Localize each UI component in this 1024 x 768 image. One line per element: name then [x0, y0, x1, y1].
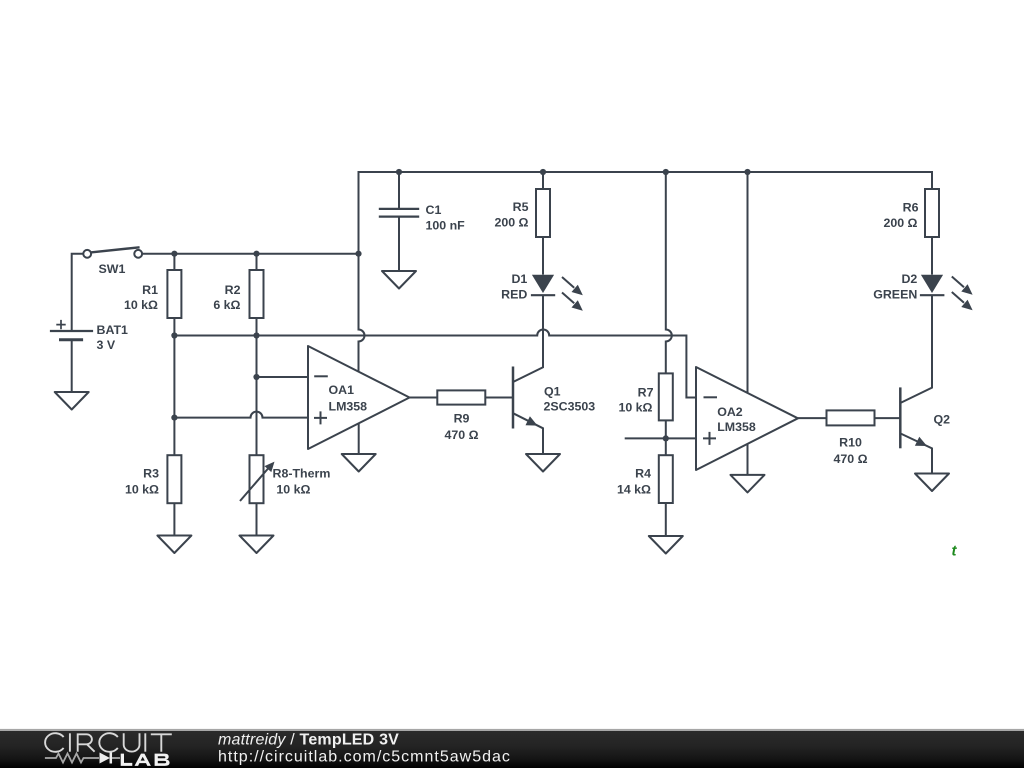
node t annotation (green) — [952, 543, 958, 560]
wire OA1 output to R9 — [410, 397, 438, 399]
wire OA1 inverting input from R2/R8 node — [257, 376, 309, 378]
wire R7 feed from top bus (hops over node-A wire) — [666, 172, 672, 373]
svg-text:R9: R9 — [454, 412, 470, 426]
node R7/R4 junction dot — [663, 435, 669, 441]
svg-text:200 Ω: 200 Ω — [883, 216, 917, 230]
svg-text:200 Ω: 200 Ω — [494, 216, 528, 230]
wire OA2 output to R10 — [798, 417, 827, 419]
ground (R4) — [649, 536, 683, 554]
svg-text:R8-Therm: R8-Therm — [273, 467, 331, 481]
svg-text:10 kΩ: 10 kΩ — [124, 298, 158, 312]
wire node A (R1/R3 tap) long horizontal to OA2 minus, hops over Q1 collector — [174, 330, 696, 398]
thermistor R8-Therm — [240, 455, 330, 535]
wire battery to switch — [72, 254, 84, 331]
wire VCC top bus with corners down to switch rail and to R6 — [359, 172, 933, 254]
ground (R3) — [157, 536, 191, 554]
resistor R10 — [827, 410, 875, 465]
resistor R9 — [437, 390, 485, 441]
svg-text:14 kΩ: 14 kΩ — [617, 482, 651, 496]
svg-text:R7: R7 — [638, 385, 654, 399]
footer bar top highlight — [0, 729, 1024, 731]
ground (Q1) — [526, 454, 560, 472]
op-amp OA2 LM358 — [696, 367, 798, 470]
ground (battery) — [55, 392, 89, 410]
svg-text:R4: R4 — [635, 466, 651, 480]
switch SW1 — [83, 247, 142, 275]
svg-text:470 Ω: 470 Ω — [833, 452, 867, 466]
wire OA1 non-inverting input (hops over R2 column) — [174, 412, 308, 418]
svg-text:100 nF: 100 nF — [426, 219, 466, 233]
resistor R5 — [494, 172, 550, 275]
svg-text:R5: R5 — [513, 200, 529, 214]
capacitor C1 — [379, 172, 465, 271]
wire OA1 V- pin to ground — [358, 423, 360, 454]
footer url — [218, 749, 511, 766]
resistor R1 — [124, 254, 181, 456]
svg-text:GREEN: GREEN — [873, 287, 917, 301]
CircuitLab logo CIRCUIT — [45, 733, 172, 752]
wire OA2 non-inverting input rail — [625, 437, 696, 439]
CircuitLab logo LAB — [121, 754, 170, 766]
node VCC junction dots on switch rail — [171, 251, 361, 257]
resistor R2 — [213, 254, 263, 456]
footer bar — [0, 731, 1024, 768]
svg-text:R1: R1 — [142, 283, 158, 297]
wire R9 to Q1 base — [485, 397, 513, 399]
svg-text:OA2: OA2 — [717, 405, 743, 419]
svg-text:BAT1: BAT1 — [97, 323, 129, 337]
svg-text:2SC3503: 2SC3503 — [544, 399, 596, 413]
wire OA2 V- pin to ground — [747, 444, 749, 475]
svg-text:10 kΩ: 10 kΩ — [125, 483, 159, 497]
svg-text:http://circuitlab.com/c5cmnt5a: http://circuitlab.com/c5cmnt5aw5dac — [218, 749, 511, 766]
ground (R8) — [240, 536, 274, 554]
svg-text:470 Ω: 470 Ω — [444, 428, 478, 442]
wire OA2 V+ pin from top bus — [747, 172, 749, 393]
ground (OA2) — [731, 475, 765, 493]
footer title mattreidy / TempLED 3V — [218, 731, 399, 748]
svg-text:6 kΩ: 6 kΩ — [213, 298, 240, 312]
node top bus junction dots — [396, 169, 751, 175]
node R2/R8 junction dot — [253, 374, 259, 380]
transistor Q2 — [900, 295, 950, 474]
resistor R7 — [618, 373, 672, 455]
svg-text:R10: R10 — [839, 436, 862, 450]
svg-text:D2: D2 — [901, 272, 917, 286]
svg-text:LM358: LM358 — [329, 399, 368, 413]
op-amp OA1 LM358 — [308, 346, 410, 449]
node junction dot on R1/R3 column — [171, 415, 177, 421]
wire switch to bus rail — [142, 253, 358, 255]
svg-text:mattreidy / TempLED 3V: mattreidy / TempLED 3V — [218, 731, 399, 748]
svg-text:Q1: Q1 — [544, 385, 561, 399]
svg-text:R6: R6 — [903, 201, 919, 215]
LED D2 GREEN — [873, 272, 972, 310]
wire R10 to Q2 base — [875, 417, 901, 419]
LED D1 RED — [501, 272, 583, 311]
ground (OA1) — [342, 454, 376, 472]
svg-text:3 V: 3 V — [97, 338, 116, 352]
svg-text:RED: RED — [501, 287, 527, 301]
svg-text:LM358: LM358 — [717, 420, 756, 434]
transistor Q1 2SC3503 — [513, 295, 595, 454]
ground (Q2) — [915, 474, 949, 492]
node A junction dots — [171, 332, 259, 338]
svg-text:D1: D1 — [511, 272, 527, 286]
svg-text:SW1: SW1 — [99, 262, 126, 276]
svg-text:R2: R2 — [225, 283, 241, 297]
svg-text:C1: C1 — [426, 203, 442, 217]
battery BAT1 — [50, 320, 128, 392]
ground (C1) — [382, 271, 416, 289]
svg-text:R3: R3 — [143, 467, 159, 481]
resistor R6 — [883, 189, 939, 275]
svg-text:10 kΩ: 10 kΩ — [618, 400, 652, 414]
resistor R3 — [125, 455, 181, 535]
CircuitLab logo resistor-diode squiggle — [45, 753, 120, 764]
svg-text:OA1: OA1 — [329, 383, 355, 397]
svg-text:10 kΩ: 10 kΩ — [276, 483, 310, 497]
wire OA1 V+ feed (hops over node-A wire) — [359, 254, 365, 373]
svg-text:Q2: Q2 — [934, 412, 951, 426]
resistor R4 — [617, 455, 673, 536]
